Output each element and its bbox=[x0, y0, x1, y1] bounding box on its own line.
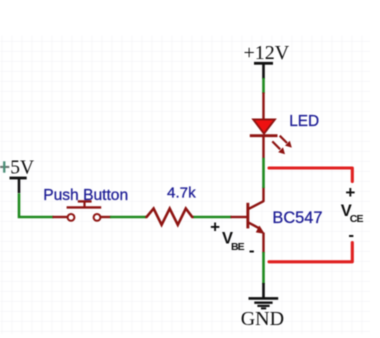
svg-text:+: + bbox=[210, 218, 220, 237]
wire switch lead left bbox=[53, 216, 68, 218]
wire LED to collector bbox=[262, 136, 264, 159]
switch Push Button bbox=[67, 201, 102, 220]
power +12V bbox=[244, 42, 290, 79]
V_BE labels bbox=[210, 218, 254, 261]
wire +12V to LED bbox=[262, 78, 265, 94]
svg-text:5V: 5V bbox=[10, 157, 34, 178]
svg-text:-: - bbox=[249, 241, 255, 260]
ground bbox=[241, 298, 284, 330]
V_CE measurement bracket bbox=[269, 168, 363, 262]
resistor R1 4.7k bbox=[145, 209, 194, 225]
svg-text:+12V: +12V bbox=[244, 42, 290, 64]
wire resistor to base bbox=[194, 216, 232, 219]
svg-text:GND: GND bbox=[241, 308, 284, 330]
svg-text:LED: LED bbox=[289, 113, 319, 130]
svg-text:-: - bbox=[348, 226, 354, 245]
svg-text:4.7k: 4.7k bbox=[167, 185, 196, 202]
wire +5V to switch bbox=[19, 193, 54, 217]
wire emitter to ground bbox=[262, 252, 265, 284]
svg-text:BC547: BC547 bbox=[272, 209, 322, 227]
transistor Q1 BC547 bbox=[231, 187, 265, 253]
svg-text:BE: BE bbox=[231, 241, 245, 253]
svg-text:Push Button: Push Button bbox=[43, 187, 128, 204]
wire switch to resistor bbox=[100, 216, 111, 218]
svg-text:+: + bbox=[345, 183, 355, 202]
svg-text:CE: CE bbox=[350, 213, 364, 225]
power +5V bbox=[0, 157, 34, 193]
LED D1 bbox=[250, 119, 292, 154]
